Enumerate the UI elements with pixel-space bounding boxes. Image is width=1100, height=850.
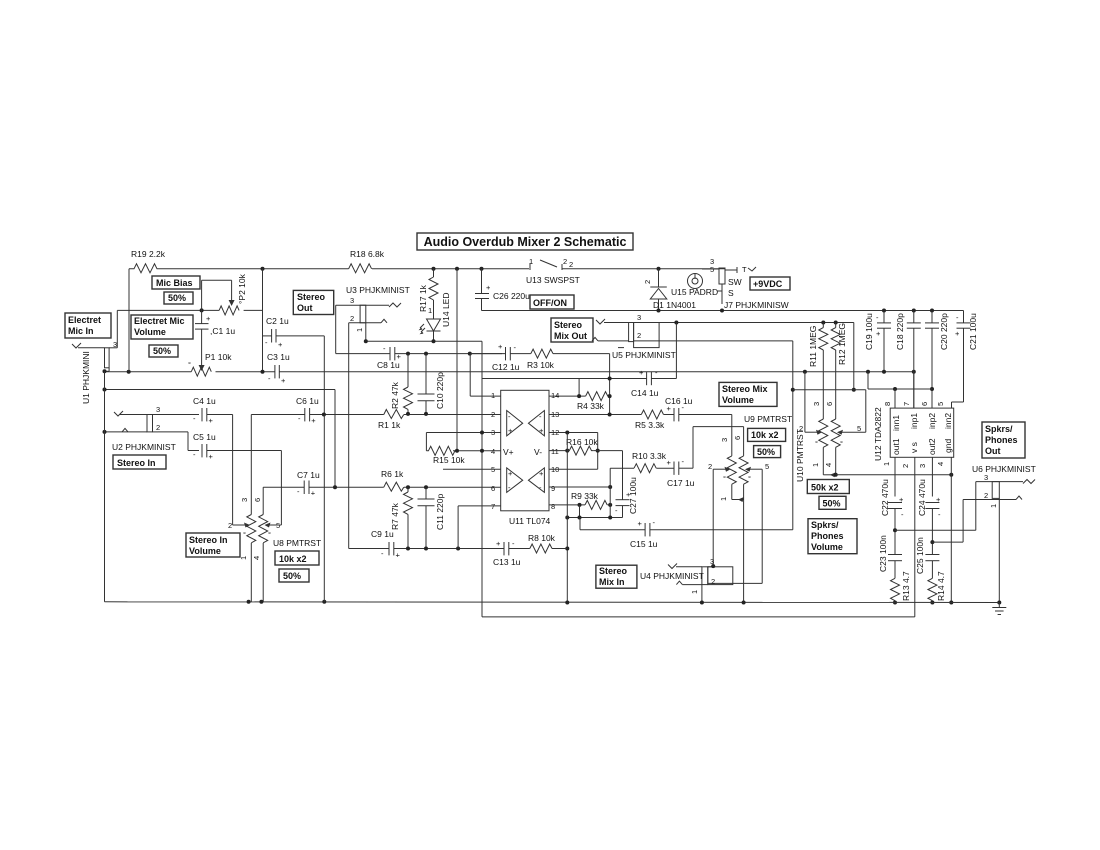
svg-text:C10 220p: C10 220p	[435, 372, 445, 409]
svg-text:Audio Overdub Mixer 2 Schemati: Audio Overdub Mixer 2 Schematic	[424, 235, 627, 249]
capacitor C12 1u	[470, 342, 531, 372]
svg-text:P1 10k: P1 10k	[205, 352, 232, 362]
svg-text:Mix Out: Mix Out	[554, 331, 587, 341]
svg-text:U8 PMTRST: U8 PMTRST	[273, 538, 321, 548]
svg-text:J7 PHJKMINISW: J7 PHJKMINISW	[724, 300, 789, 310]
capacitor C23 100n	[878, 535, 902, 578]
svg-text:C25 100n: C25 100n	[915, 537, 925, 574]
svg-text:Out: Out	[985, 446, 1001, 456]
svg-text:10k x2: 10k x2	[279, 554, 307, 564]
wire pin5 row	[443, 468, 501, 470]
svg-text:R4 33k: R4 33k	[577, 401, 605, 411]
wire pin13 row	[549, 413, 641, 417]
wire pin10 to R10 row	[610, 467, 634, 469]
wire x482 bus	[481, 341, 483, 617]
svg-text:C27 100u: C27 100u	[628, 477, 638, 514]
resistor R17 1k	[418, 269, 438, 319]
svg-text:Mic In: Mic In	[68, 326, 94, 336]
svg-text:S: S	[728, 288, 734, 298]
svg-text:OFF/ON: OFF/ON	[533, 298, 567, 308]
svg-text:+: +	[278, 340, 283, 349]
svg-text:2: 2	[637, 331, 641, 340]
svg-text:Stereo: Stereo	[554, 320, 583, 330]
wire mic row y389	[103, 388, 336, 488]
svg-text:Electret Mic: Electret Mic	[134, 316, 185, 326]
node C10 top	[424, 352, 428, 356]
svg-text:V-: V-	[534, 447, 542, 457]
label +9VDC	[750, 277, 790, 290]
wire inn bridge y389	[868, 372, 932, 391]
svg-text:Mix In: Mix In	[599, 577, 625, 587]
svg-text:U14 LED: U14 LED	[441, 293, 451, 328]
svg-text:8: 8	[883, 402, 892, 406]
wire pin1 loop	[470, 354, 501, 397]
wire U5 pin3 rail y322	[634, 321, 856, 392]
svg-text:5: 5	[936, 402, 945, 406]
wire P1 row y371 left	[105, 371, 192, 373]
resistor R13 4.7	[891, 571, 912, 605]
svg-text:D1 1N4001: D1 1N4001	[653, 300, 696, 310]
label Electret Mic In	[65, 313, 111, 338]
svg-text:1: 1	[989, 504, 998, 508]
svg-text:5: 5	[857, 424, 861, 433]
wire U10 wiper feed row y389.8	[793, 390, 866, 432]
ground	[992, 603, 1006, 615]
wire P1 row to C3	[216, 371, 275, 373]
node C2 bus on R1 row	[322, 413, 326, 417]
svg-text:2: 2	[901, 464, 910, 468]
wire pin14 row	[549, 394, 586, 398]
svg-text:+9VDC: +9VDC	[753, 279, 783, 289]
svg-text:U11 TL074: U11 TL074	[509, 516, 551, 526]
capacitor C21 100u	[952, 311, 979, 409]
svg-text:inn1: inn1	[891, 415, 901, 431]
svg-text:8: 8	[551, 502, 555, 511]
jack U4 PHJKMINIST	[640, 557, 762, 603]
node R19 column bottom	[127, 370, 131, 374]
wire V+ column x457	[456, 269, 458, 451]
svg-text:SW: SW	[728, 277, 742, 287]
capacitor C2 1u	[263, 316, 325, 415]
node V+ column top	[455, 267, 459, 271]
jack U2 PHJKMINIST	[103, 405, 176, 452]
label U8 10k x2	[275, 551, 319, 565]
svg-text:out2: out2	[927, 438, 937, 455]
capacitor C16 1u	[665, 396, 732, 456]
svg-text:Volume: Volume	[134, 327, 166, 337]
resistor R12 1MEG	[831, 323, 847, 420]
svg-text:C12 1u: C12 1u	[492, 362, 520, 372]
svg-text:Stereo In: Stereo In	[117, 458, 156, 468]
jack J7 PHJKMINISW	[702, 257, 789, 310]
svg-text:6: 6	[491, 484, 495, 493]
wire pin11 stub	[549, 449, 569, 453]
svg-text:R8 10k: R8 10k	[528, 533, 556, 543]
svg-text:Spkrs/: Spkrs/	[985, 424, 1013, 434]
node bias column P1 row	[261, 370, 265, 374]
svg-text:C20 220p: C20 220p	[939, 313, 949, 350]
wire pin8 row	[549, 503, 585, 518]
svg-text:6: 6	[733, 436, 742, 440]
svg-text:R17 1k: R17 1k	[418, 284, 428, 312]
wire R19 column	[128, 269, 130, 372]
svg-text:+: +	[206, 314, 211, 323]
label Stereo Out	[293, 290, 333, 314]
svg-text:50%: 50%	[823, 499, 841, 509]
svg-text:C14 1u: C14 1u	[631, 388, 659, 398]
label Mic Bias 50%	[164, 292, 193, 304]
svg-text:4: 4	[252, 556, 261, 560]
svg-text:+: +	[496, 539, 501, 548]
pot P2 10k	[202, 273, 263, 315]
pot P1 10k	[188, 352, 232, 376]
svg-text:+: +	[955, 329, 960, 338]
svg-text:3: 3	[984, 473, 988, 482]
pot U8 PMTRST dual	[228, 498, 321, 602]
svg-text:7: 7	[902, 402, 911, 406]
capacitor C19 100u	[864, 311, 891, 374]
svg-text:50%: 50%	[153, 346, 171, 356]
resistor R1 1k	[378, 410, 501, 431]
capacitor C14 1u	[631, 368, 676, 398]
svg-text:Volume: Volume	[811, 542, 843, 552]
wire pin9 row	[549, 485, 612, 489]
svg-text:2: 2	[563, 257, 567, 266]
svg-text:Stereo In: Stereo In	[189, 535, 228, 545]
capacitor C4 1u	[193, 396, 233, 525]
svg-text:50k x2: 50k x2	[811, 483, 839, 493]
svg-text:R14 4.7: R14 4.7	[936, 571, 946, 601]
svg-text:V+: V+	[503, 447, 514, 457]
wire left wiper column x804.9	[804, 372, 806, 433]
svg-text:C13 1u: C13 1u	[493, 557, 521, 567]
svg-text:+: +	[209, 452, 214, 461]
svg-text:U9 PMTRST: U9 PMTRST	[744, 414, 792, 424]
wire ground rail A	[105, 371, 1000, 604]
resistor R3 10k	[527, 349, 610, 414]
svg-text:3: 3	[637, 313, 641, 322]
svg-text:Phones: Phones	[985, 435, 1018, 445]
svg-text:°: °	[748, 474, 751, 483]
svg-text:2: 2	[569, 260, 573, 269]
svg-text:C21 100u: C21 100u	[968, 313, 978, 350]
wire U12 pin4 gnd column	[949, 457, 953, 604]
svg-text:U5 PHJKMINIST: U5 PHJKMINIST	[612, 350, 676, 360]
wire pin3 row	[426, 431, 500, 451]
svg-text:6: 6	[920, 402, 929, 406]
svg-text:+: +	[639, 368, 644, 377]
svg-text:R10 3.3k: R10 3.3k	[632, 451, 667, 461]
wire pin11 bus x567	[565, 433, 569, 603]
wire C14 column from U5 pin3	[675, 323, 677, 379]
svg-text:inp1: inp1	[909, 413, 919, 429]
switch U13 SWSPST	[526, 257, 580, 285]
wire y517 row	[565, 516, 622, 530]
svg-text:C23 100n: C23 100n	[878, 535, 888, 572]
node diode top	[657, 267, 661, 271]
svg-text:Volume: Volume	[189, 546, 221, 556]
svg-text:R9 33k: R9 33k	[571, 491, 599, 501]
svg-text:6: 6	[825, 402, 834, 406]
resistor R4 33k	[577, 392, 612, 411]
svg-text:R5 3.3k: R5 3.3k	[635, 420, 665, 430]
svg-text:°P2 10k: °P2 10k	[237, 273, 247, 304]
node R18/P2 junction	[261, 267, 265, 271]
LED U14	[420, 293, 451, 342]
svg-text:2: 2	[643, 280, 652, 284]
wire U5 pin2 row y340.9	[634, 341, 795, 530]
svg-text:1: 1	[811, 463, 820, 467]
svg-text:C4 1u: C4 1u	[193, 396, 216, 406]
svg-text:+: +	[508, 426, 513, 435]
node U1 sleeve	[103, 369, 107, 373]
svg-text:+: +	[311, 416, 316, 425]
node U11 pin1 column at C12 row	[468, 352, 472, 356]
svg-text:1: 1	[355, 328, 364, 332]
label U10 50%	[819, 496, 846, 509]
capacitor C6 1u	[251, 396, 383, 515]
wire second rail y310	[482, 309, 964, 313]
capacitor C8 1u	[336, 344, 502, 370]
resistor R18	[349, 249, 385, 273]
svg-text:3: 3	[918, 464, 927, 468]
capacitor C25 100n	[915, 537, 939, 578]
wire rail B	[482, 457, 915, 617]
wire top rail right of switch	[562, 268, 725, 270]
svg-text:10k x2: 10k x2	[751, 430, 779, 440]
capacitor C1 1u	[195, 280, 235, 364]
jack U5 PHJKMINIST	[592, 313, 676, 360]
svg-text:C17 1u: C17 1u	[667, 478, 695, 488]
jack U6 PHJKMINIST	[895, 464, 1036, 605]
svg-text:,C1 1u: ,C1 1u	[210, 326, 235, 336]
svg-text:C8 1u: C8 1u	[377, 360, 400, 370]
svg-text:R6 1k: R6 1k	[381, 469, 404, 479]
power jack U15 PADRD	[671, 274, 722, 298]
svg-text:°: °	[243, 530, 246, 539]
wire pin7 jog to C13 row	[458, 506, 501, 549]
wire top rail mid	[372, 268, 529, 270]
svg-text:U13 SWSPST: U13 SWSPST	[526, 275, 580, 285]
resistor R19	[129, 249, 166, 273]
svg-text:50%: 50%	[168, 293, 186, 303]
resistor R7 47k	[390, 487, 413, 548]
wire U12 pin3 column	[931, 457, 933, 496]
svg-text:4: 4	[824, 463, 833, 467]
svg-text:1: 1	[690, 590, 699, 594]
node C1 top at bias row	[200, 308, 204, 312]
svg-text:C3 1u: C3 1u	[267, 352, 290, 362]
svg-text:C11 220p: C11 220p	[435, 493, 445, 530]
svg-text:50%: 50%	[757, 447, 775, 457]
svg-text:°: °	[723, 474, 726, 483]
wire over-the-top loop y378	[482, 377, 647, 397]
svg-text:U10 PMTRST: U10 PMTRST	[795, 429, 805, 482]
svg-text:C15 1u: C15 1u	[630, 539, 658, 549]
svg-text:R11 1MEG: R11 1MEG	[808, 326, 818, 367]
svg-text:inn2: inn2	[943, 413, 953, 429]
svg-text:R2 47k: R2 47k	[390, 381, 400, 409]
svg-text:R13 4.7: R13 4.7	[901, 571, 911, 601]
svg-text:+: +	[311, 489, 316, 498]
label Stereo In Volume	[186, 533, 240, 557]
svg-text:+: +	[539, 426, 544, 435]
pot U9 PMTRST dual	[708, 414, 792, 603]
jack U3 PHJKMINIST	[336, 285, 410, 549]
capacitor C11 220p	[418, 487, 446, 548]
capacitor C18 220p	[895, 311, 921, 409]
wire pin10 row	[549, 468, 598, 470]
svg-text:+: +	[667, 458, 672, 467]
wire R19/P2 column x262	[262, 269, 264, 372]
svg-text:1: 1	[428, 306, 432, 315]
svg-text:Electret: Electret	[68, 315, 101, 325]
svg-text:2: 2	[984, 491, 988, 500]
label OFF/ON	[530, 295, 574, 309]
node C26 top	[480, 267, 484, 271]
svg-text:+: +	[876, 329, 881, 338]
resistor R5 3.3k	[635, 410, 674, 430]
svg-text:4: 4	[936, 462, 945, 466]
svg-text:°: °	[815, 439, 818, 448]
pot U10 PMTRST dual	[795, 402, 866, 482]
svg-text:1: 1	[491, 391, 495, 400]
svg-text:1: 1	[719, 497, 728, 501]
resistor R6 1k	[381, 469, 501, 491]
svg-text:1: 1	[882, 462, 891, 466]
label Spkrs/Phones Out	[982, 422, 1025, 458]
label Stereo Mix Out	[551, 318, 593, 342]
svg-text:+: +	[508, 469, 513, 478]
svg-text:+: +	[281, 376, 286, 385]
svg-text:3: 3	[720, 438, 729, 442]
svg-text:+: +	[498, 342, 503, 351]
wire U12 pin1 column	[894, 457, 896, 496]
svg-text:U6 PHJKMINIST: U6 PHJKMINIST	[972, 464, 1036, 474]
wire C2 bus x324 lower	[323, 415, 325, 602]
svg-text:C19 100u: C19 100u	[864, 313, 874, 350]
label U9 10k x2	[748, 428, 786, 441]
label Stereo Mix In	[596, 565, 637, 588]
svg-text:R15 10k: R15 10k	[433, 455, 465, 465]
svg-text:gnd: gnd	[943, 439, 953, 453]
wire U2 pin3 row to C4	[158, 414, 199, 416]
svg-text:+: +	[486, 283, 491, 292]
svg-text:C18 220p: C18 220p	[895, 313, 905, 350]
op-amp U11 TL074	[491, 390, 559, 526]
svg-text:50%: 50%	[283, 571, 301, 581]
svg-text:Stereo: Stereo	[297, 292, 326, 302]
wire pin12 loop	[549, 431, 600, 470]
label U8 50%	[279, 569, 309, 582]
diode D1 1N4001	[643, 269, 696, 311]
svg-text:+: +	[638, 519, 643, 528]
svg-text:R3 10k: R3 10k	[527, 360, 555, 370]
svg-text:2: 2	[350, 314, 354, 323]
label U10 50k x2	[807, 480, 849, 494]
svg-text:Volume: Volume	[722, 395, 754, 405]
svg-text:Stereo Mix: Stereo Mix	[722, 384, 768, 394]
resistor R14 4.7	[928, 571, 946, 605]
resistor R8 10k	[528, 533, 567, 553]
node R2 top	[406, 352, 410, 356]
svg-text:+: +	[667, 404, 672, 413]
svg-text:2: 2	[711, 577, 715, 586]
svg-text:Stereo: Stereo	[599, 566, 628, 576]
capacitor C20 220p	[925, 311, 949, 409]
resistor R15 10k	[426, 446, 500, 465]
capacitor C3 1u	[267, 352, 290, 385]
resistor R16 10k	[566, 437, 623, 500]
svg-text:14: 14	[551, 391, 559, 400]
svg-text:°: °	[188, 360, 191, 369]
capacitor C5 1u	[193, 432, 281, 525]
svg-text:out1: out1	[891, 438, 901, 455]
svg-text:C9 1u: C9 1u	[371, 529, 394, 539]
svg-text:T: T	[742, 265, 747, 274]
svg-text:2: 2	[799, 424, 803, 433]
capacitor C27 100u	[615, 477, 638, 518]
capacitor C22 470u	[880, 479, 904, 555]
svg-text:U15 PADRD: U15 PADRD	[671, 287, 718, 297]
resistor R9 33k	[571, 468, 612, 517]
capacitor C9 1u	[349, 529, 504, 560]
svg-text:+: +	[396, 551, 401, 560]
svg-text:R7 47k: R7 47k	[390, 502, 400, 530]
label Spkrs/Phones Volume	[808, 519, 857, 554]
svg-text:U4 PHJKMINIST: U4 PHJKMINIST	[640, 571, 704, 581]
svg-text:U3 PHJKMINIST: U3 PHJKMINIST	[346, 285, 410, 295]
svg-text:C22 470u: C22 470u	[880, 479, 890, 516]
resistor R2 47k	[390, 354, 413, 414]
svg-text:R1 1k: R1 1k	[378, 420, 401, 430]
svg-text:v s: v s	[909, 442, 919, 453]
svg-text:2: 2	[708, 462, 712, 471]
svg-text:inp2: inp2	[927, 413, 937, 429]
svg-text:Spkrs/: Spkrs/	[811, 520, 839, 530]
svg-text:C6 1u: C6 1u	[296, 396, 319, 406]
wire top rail left	[162, 268, 349, 270]
capacitor C24 470u	[917, 479, 941, 555]
svg-text:6: 6	[253, 498, 262, 502]
svg-text:2: 2	[228, 521, 232, 530]
svg-text:3: 3	[812, 402, 821, 406]
svg-text:4: 4	[491, 447, 495, 456]
svg-text:2: 2	[491, 410, 495, 419]
svg-text:7: 7	[491, 502, 495, 511]
svg-text:U2 PHJKMINIST: U2 PHJKMINIST	[112, 442, 176, 452]
svg-text:C5 1u: C5 1u	[193, 432, 216, 442]
label Mic Bias	[152, 276, 200, 289]
label Stereo In	[113, 455, 166, 469]
capacitor C17 1u	[667, 427, 744, 488]
capacitor C7 1u	[263, 470, 384, 515]
svg-text:3: 3	[240, 498, 249, 502]
label Stereo Mix Volume	[719, 382, 777, 406]
svg-text:C24 470u: C24 470u	[917, 479, 927, 516]
svg-text:°: °	[840, 439, 843, 448]
svg-text:C7 1u: C7 1u	[297, 470, 320, 480]
label U9 50%	[754, 446, 781, 458]
wire U2 pin2 jog to C5	[158, 432, 199, 451]
svg-text:2: 2	[156, 423, 160, 432]
svg-text:Mic Bias: Mic Bias	[156, 278, 193, 288]
svg-text:°: °	[268, 530, 271, 539]
svg-text:R16 10k: R16 10k	[566, 437, 598, 447]
svg-text:+: +	[209, 416, 214, 425]
svg-text:5: 5	[765, 462, 769, 471]
label Electret Mic Volume 50%	[149, 345, 178, 357]
